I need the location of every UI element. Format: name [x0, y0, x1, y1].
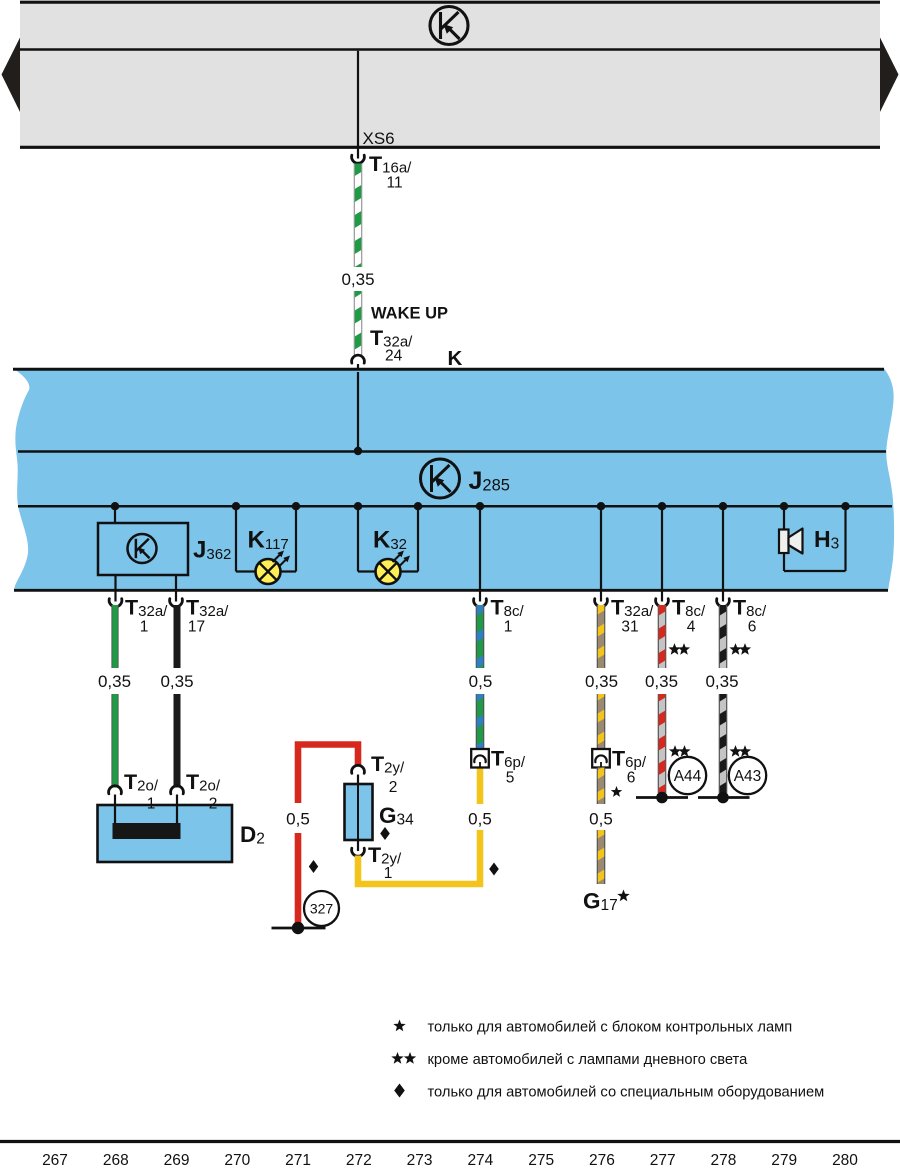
svg-text:17: 17	[188, 619, 205, 636]
svg-text:278: 278	[711, 1152, 737, 1168]
svg-text:0,35: 0,35	[341, 270, 374, 289]
svg-text:270: 270	[224, 1152, 250, 1168]
svg-text:0,5: 0,5	[469, 672, 493, 691]
svg-text:279: 279	[771, 1152, 797, 1168]
svg-text:2: 2	[209, 796, 218, 813]
svg-text:274: 274	[467, 1152, 493, 1168]
svg-text:277: 277	[650, 1152, 676, 1168]
svg-text:4: 4	[687, 619, 696, 636]
svg-text:0,35: 0,35	[98, 672, 131, 691]
svg-text:A44: A44	[674, 768, 702, 785]
svg-text:2: 2	[389, 779, 398, 796]
svg-text:268: 268	[103, 1152, 129, 1168]
svg-text:1: 1	[504, 619, 513, 636]
svg-text:271: 271	[285, 1152, 311, 1168]
svg-text:6: 6	[627, 770, 636, 787]
svg-text:273: 273	[407, 1152, 433, 1168]
svg-text:31: 31	[621, 619, 638, 636]
svg-text:275: 275	[528, 1152, 554, 1168]
svg-text:0,35: 0,35	[645, 672, 678, 691]
svg-text:WAKE UP: WAKE UP	[371, 305, 448, 323]
svg-text:1: 1	[147, 796, 156, 813]
svg-text:1: 1	[384, 865, 393, 882]
svg-text:272: 272	[346, 1152, 372, 1168]
svg-text:280: 280	[832, 1152, 858, 1168]
svg-text:267: 267	[42, 1152, 68, 1168]
svg-text:1: 1	[140, 619, 149, 636]
svg-text:0,5: 0,5	[468, 810, 492, 829]
svg-text:24: 24	[385, 348, 403, 365]
svg-text:только для автомобилей со спец: только для автомобилей со специальным об…	[428, 1085, 825, 1101]
svg-text:0,5: 0,5	[589, 810, 613, 829]
svg-text:XS6: XS6	[363, 129, 395, 148]
svg-text:5: 5	[506, 770, 515, 787]
svg-text:6: 6	[748, 619, 757, 636]
svg-text:только для автомобилей с блоко: только для автомобилей с блоком контроль…	[428, 1020, 793, 1036]
svg-text:0,35: 0,35	[585, 672, 618, 691]
svg-text:269: 269	[164, 1152, 190, 1168]
svg-text:K: K	[448, 347, 463, 370]
svg-text:кроме автомобилей с лампами дн: кроме автомобилей с лампами дневного све…	[428, 1052, 749, 1068]
svg-text:A43: A43	[734, 768, 762, 785]
svg-text:0,5: 0,5	[286, 810, 310, 829]
svg-text:11: 11	[387, 175, 403, 192]
svg-text:0,35: 0,35	[705, 672, 738, 691]
svg-text:0,35: 0,35	[160, 672, 193, 691]
svg-text:327: 327	[310, 901, 334, 917]
svg-text:276: 276	[589, 1152, 615, 1168]
